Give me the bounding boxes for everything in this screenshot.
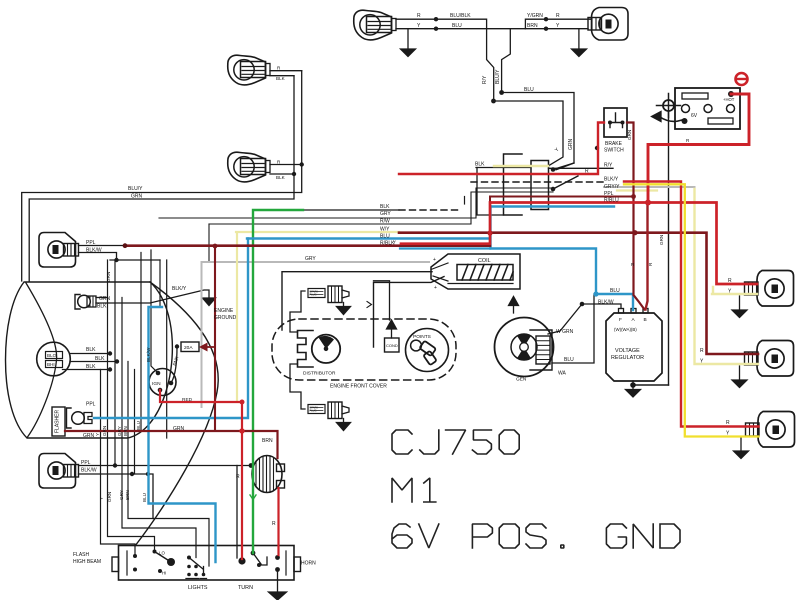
svg-text:Y/GRN: Y/GRN — [527, 13, 543, 19]
wire Y short brake area — [617, 189, 657, 191]
wire bundle verticals — [101, 370, 136, 557]
svg-text:W/Y: W/Y — [380, 227, 390, 233]
wire R lamp1 feed — [401, 203, 757, 285]
svg-text:R: R — [236, 474, 240, 480]
ground under stop lamp — [578, 29, 580, 49]
svg-text:BLU/Y: BLU/Y — [495, 69, 501, 84]
svg-text:BRN: BRN — [125, 490, 130, 500]
svg-text:R/BLU: R/BLU — [604, 198, 619, 204]
svg-text:PPL: PPL — [604, 191, 614, 197]
big CAD title text — [392, 430, 680, 548]
junction dots top wires — [434, 17, 548, 103]
connector levers — [553, 163, 578, 189]
battery negative arrow to frame — [660, 117, 682, 121]
wire BRN to stop lamp — [525, 28, 588, 30]
engine front cover dashed — [272, 319, 456, 380]
ignition switch circle — [149, 369, 176, 396]
wire direction arrow — [367, 302, 372, 308]
svg-text:PPL: PPL — [86, 402, 96, 408]
svg-text:R: R — [417, 13, 421, 19]
wire BLK/W from front-left turn lamp — [79, 253, 117, 261]
svg-text:BLK/W: BLK/W — [81, 468, 97, 474]
wire WA armature — [552, 294, 594, 363]
svg-text:COIL: COIL — [478, 258, 491, 264]
right turn lamp 1 — [745, 271, 794, 307]
battery negative symbol red — [736, 73, 748, 85]
wire Y/BLU from L1 — [396, 29, 525, 93]
horn ground — [277, 570, 279, 593]
headlight bulb — [37, 342, 71, 376]
plug 1 lead — [290, 291, 305, 332]
flasher pilot box — [52, 407, 65, 436]
svg-text:GRN: GRN — [659, 235, 664, 245]
maroon dot — [632, 230, 637, 235]
wire W GRN field — [548, 304, 582, 334]
tail lamp L1 top-center-left — [354, 10, 396, 40]
svg-text:LO: LO — [159, 551, 165, 556]
wire PPL from front-left turn lamp — [79, 245, 125, 247]
svg-text:POINTS: POINTS — [413, 334, 431, 340]
svg-text:VOLTAGE: VOLTAGE — [615, 348, 640, 354]
svg-text:RED: RED — [182, 397, 193, 403]
long run GRY — [159, 188, 553, 218]
svg-text:GRN: GRN — [568, 139, 574, 151]
svg-text:FLASH: FLASH — [73, 552, 90, 558]
svg-text:BLK: BLK — [380, 204, 390, 210]
svg-text:BLK: BLK — [95, 356, 105, 362]
svg-text:R: R — [556, 13, 560, 19]
title CJ750 — [392, 430, 412, 454]
svg-text:BLU: BLU — [524, 87, 534, 93]
svg-text:GRY: GRY — [119, 490, 124, 500]
svg-text:PLUG: PLUG — [310, 409, 317, 413]
turn flasher can — [252, 456, 285, 493]
wire R battery — [648, 94, 749, 203]
svg-text:BLK/W: BLK/W — [86, 248, 102, 254]
wires pilot lamp A — [270, 71, 302, 76]
svg-text:PPL: PPL — [86, 240, 96, 246]
svg-text:+: + — [434, 285, 437, 291]
svg-text:R/Y: R/Y — [604, 163, 613, 169]
svg-text:GRY: GRY — [380, 211, 391, 217]
svg-text:BLK/Y: BLK/Y — [172, 286, 187, 292]
wire Y/GRN to stop lamp — [525, 19, 591, 29]
stop lamp housing top-right — [588, 8, 628, 41]
svg-text:GRN: GRN — [106, 272, 111, 282]
svg-text:BLK: BLK — [276, 175, 286, 180]
svg-text:BLK: BLK — [86, 364, 96, 370]
wires pilot lamp B — [270, 165, 302, 175]
horn contacts — [275, 555, 280, 560]
red junction dot — [645, 200, 651, 206]
svg-text:GRN: GRN — [99, 296, 111, 302]
battery ground lead down — [668, 111, 670, 385]
svg-text:BRN: BRN — [527, 23, 538, 29]
svg-text:BLU/BLK: BLU/BLK — [450, 13, 471, 19]
svg-text:BLK: BLK — [97, 304, 107, 310]
wire maroon battery to B — [646, 203, 648, 310]
svg-text:PLUG: PLUG — [310, 293, 317, 297]
harness sweep curve — [135, 282, 218, 546]
wire GRY long — [202, 262, 430, 407]
wire GRY/Y — [604, 186, 695, 188]
dashed key line — [471, 181, 604, 183]
spark plug 2 — [308, 402, 351, 431]
wire maroon stop feed — [399, 233, 758, 354]
svg-text:ENGINE FRONT COVER: ENGINE FRONT COVER — [330, 384, 387, 390]
svg-text:IGN: IGN — [152, 381, 161, 387]
wire BRN maroon flasher feed — [65, 431, 278, 458]
right turn lamp 2 — [745, 341, 794, 377]
pilot lamp B upper-left — [228, 152, 270, 182]
wire W/Y pale — [236, 232, 399, 401]
wire GRN speedo — [96, 297, 108, 299]
ignition connector bracket — [504, 154, 523, 215]
junction dots misc — [113, 146, 599, 476]
svg-text:GRN: GRN — [627, 130, 632, 140]
svg-text:R: R — [728, 278, 732, 284]
flasher pilot lamp — [67, 408, 93, 428]
svg-text:R: R — [700, 348, 704, 354]
svg-text:BLU: BLU — [380, 234, 390, 240]
brake switch — [604, 108, 627, 137]
cyan junction dot — [593, 291, 598, 296]
wire BLU flasher branch — [94, 239, 248, 419]
svg-text:WA: WA — [558, 371, 567, 377]
wire BLU lower duplicate — [400, 247, 490, 249]
headlight shell outline — [6, 282, 173, 438]
wire BLK long run — [303, 209, 399, 211]
coil — [431, 254, 520, 289]
svg-text:+: + — [433, 257, 436, 263]
engine ground arrow — [203, 298, 216, 306]
wire Y lamp3 feed — [624, 184, 759, 436]
wire R/BLU cyan part — [491, 205, 615, 207]
svg-text:LIGHTS: LIGHTS — [188, 585, 208, 591]
svg-text:BRN: BRN — [123, 426, 128, 436]
svg-text:HIGH BEAM: HIGH BEAM — [73, 559, 101, 565]
svg-text:Y: Y — [95, 433, 100, 436]
svg-text:BLK/Y: BLK/Y — [604, 177, 619, 183]
pilot lamp junction dots — [292, 162, 304, 176]
wire PPL rear-left lamp — [79, 474, 154, 519]
title M1 — [392, 478, 412, 502]
wire BLK into connector — [476, 167, 531, 169]
wire BLU staircase to ignition switch — [502, 93, 574, 170]
svg-text:BLU: BLU — [610, 288, 620, 294]
fuse 20A — [181, 342, 199, 352]
wire GRN long — [253, 210, 303, 553]
wire BLU headlight branch — [149, 307, 216, 562]
svg-text:+HOT: +HOT — [723, 97, 735, 102]
wire maroon brake to regulator B — [627, 123, 645, 310]
svg-text:F: F — [619, 317, 622, 323]
svg-text:R: R — [272, 521, 276, 527]
svg-text:BLU: BLU — [564, 357, 574, 363]
wire R/BLK maroon long run — [125, 244, 490, 247]
svg-text:PPL: PPL — [81, 460, 91, 466]
battery — [675, 88, 740, 129]
svg-text:ENGINE: ENGINE — [214, 308, 234, 314]
svg-text:GRN: GRN — [131, 194, 143, 200]
title 6V POS. GND — [392, 524, 412, 548]
svg-text:BLU: BLU — [142, 493, 147, 502]
wire jog at 260 — [110, 259, 160, 261]
wire BLU long run — [247, 207, 633, 311]
wire to TURN switch — [236, 466, 238, 559]
voltage regulator — [606, 309, 662, 382]
handlebar switch box — [119, 546, 295, 581]
turn lamp rear-left housing — [39, 454, 79, 489]
svg-text:GRN: GRN — [107, 492, 112, 502]
lights switch contacts — [187, 556, 205, 577]
ignition connector body — [531, 161, 549, 210]
green arrowhead — [250, 495, 256, 500]
wire PPL maroon — [490, 197, 634, 203]
svg-text:BRAKE: BRAKE — [605, 141, 623, 147]
wire R/Y brake — [549, 167, 614, 169]
pilot lamp A upper-left — [228, 55, 270, 85]
svg-text:SWITCH: SWITCH — [604, 148, 624, 154]
svg-text:BRN: BRN — [262, 438, 273, 444]
speedometer lamp — [75, 295, 96, 310]
svg-text:BLO: BLO — [47, 353, 57, 358]
long run R/W — [209, 192, 553, 224]
svg-text:R: R — [726, 420, 730, 426]
wire BLK/W rear-left lamp to flasher can — [79, 465, 252, 467]
wire R from L1 — [396, 19, 494, 101]
coil primary wire upper — [282, 272, 432, 330]
svg-text:REGULATOR: REGULATOR — [611, 355, 644, 361]
turn lamp front-left housing — [39, 233, 79, 268]
svg-text:GRN: GRN — [102, 426, 107, 436]
svg-text:HORN: HORN — [301, 561, 316, 567]
generator — [495, 318, 554, 377]
svg-text:GRN: GRN — [173, 426, 185, 432]
svg-text:(W)(WA)(B): (W)(WA)(B) — [614, 327, 637, 332]
regulator ground — [633, 381, 669, 385]
wire BLK speedo to engine ground — [96, 290, 209, 303]
svg-text:GRY: GRY — [117, 426, 122, 436]
svg-text:BLU/Y: BLU/Y — [128, 186, 143, 192]
positive ground crosshair — [657, 94, 681, 118]
svg-text:BLK: BLK — [276, 76, 286, 81]
ground under L1 — [407, 29, 409, 49]
svg-text:GROUND: GROUND — [214, 315, 237, 321]
plug 2 lead — [290, 364, 305, 409]
svg-text:GRY/Y: GRY/Y — [604, 184, 620, 190]
svg-text:BLK: BLK — [86, 347, 96, 353]
svg-text:R/W: R/W — [380, 219, 390, 225]
svg-text:GRY: GRY — [305, 256, 316, 262]
svg-text:HI: HI — [162, 571, 166, 576]
svg-text:Y: Y — [393, 240, 396, 245]
svg-text:BLK/W: BLK/W — [146, 347, 151, 362]
svg-text:6V: 6V — [691, 113, 698, 119]
spark plug 1 — [308, 286, 351, 315]
wire BLK/W ignition feed — [151, 250, 158, 373]
svg-text:W GRN: W GRN — [556, 329, 574, 335]
svg-text:BLK/W: BLK/W — [598, 300, 614, 306]
svg-text:BLK: BLK — [475, 162, 485, 168]
wire BLK/W to regulator F — [582, 304, 621, 309]
wire R brake feed — [399, 123, 604, 175]
svg-text:BHI: BHI — [47, 362, 55, 367]
wire PNK to fuse — [171, 347, 177, 383]
svg-text:20A: 20A — [184, 345, 193, 351]
left nested bracket wire BLU/Y — [22, 71, 302, 281]
svg-text:TURN: TURN — [238, 585, 253, 591]
wires BLK headlight — [63, 354, 118, 370]
wire Y staircase to ignition switch — [494, 101, 564, 166]
svg-text:DISTRIBUTOR: DISTRIBUTOR — [303, 371, 336, 377]
dashed run to ignition connector — [399, 209, 461, 211]
svg-text:R/Y: R/Y — [482, 75, 488, 84]
wire R lamp3 feed — [624, 182, 759, 427]
wire maroon ignition to fuse and flasher — [214, 246, 216, 431]
svg-text:FLASHER: FLASHER — [55, 410, 61, 433]
wire Y to lamp1 — [712, 287, 757, 294]
svg-text:GRN: GRN — [83, 433, 95, 439]
left nested bracket wire GRN — [29, 76, 294, 281]
svg-text:R: R — [585, 169, 589, 175]
distributor — [298, 331, 341, 368]
svg-text:Y: Y — [99, 497, 104, 500]
generator rotation arrow — [513, 304, 515, 313]
coil primary wire lower — [374, 277, 445, 348]
condenser — [374, 281, 400, 352]
svg-text:GEN: GEN — [516, 377, 527, 383]
wire pale yellow key feed — [494, 165, 548, 167]
points — [406, 329, 449, 372]
turn switch contacts — [238, 557, 245, 564]
wire Y to lamp2 — [695, 189, 759, 364]
svg-text:BLU: BLU — [136, 421, 141, 430]
svg-text:COND: COND — [386, 343, 398, 348]
svg-text:B: B — [644, 317, 647, 323]
wire R flasher to horn — [277, 488, 279, 555]
svg-text:BLU: BLU — [452, 23, 462, 29]
wire RED ignition to turn — [160, 390, 242, 559]
headlight reflector curve — [26, 283, 57, 437]
flash switch contacts — [133, 550, 175, 574]
right turn lamp 3 — [746, 412, 795, 448]
